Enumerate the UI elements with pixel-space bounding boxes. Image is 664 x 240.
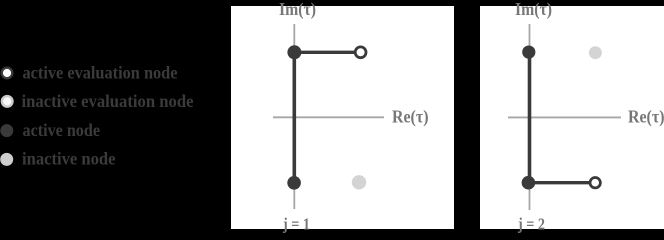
- svg-text:j = 2: j = 2: [517, 215, 545, 234]
- svg-text:active evaluation node: active evaluation node: [23, 62, 178, 82]
- svg-text:Im(τ): Im(τ): [515, 0, 552, 19]
- svg-text:Re(τ): Re(τ): [392, 107, 429, 128]
- svg-text:j = 1: j = 1: [282, 215, 310, 234]
- svg-text:inactive evaluation node: inactive evaluation node: [22, 91, 194, 111]
- svg-text:active node: active node: [23, 120, 101, 140]
- svg-text:Re(τ): Re(τ): [628, 107, 664, 128]
- svg-text:inactive node: inactive node: [22, 148, 116, 168]
- svg-text:Im(τ): Im(τ): [279, 0, 316, 19]
